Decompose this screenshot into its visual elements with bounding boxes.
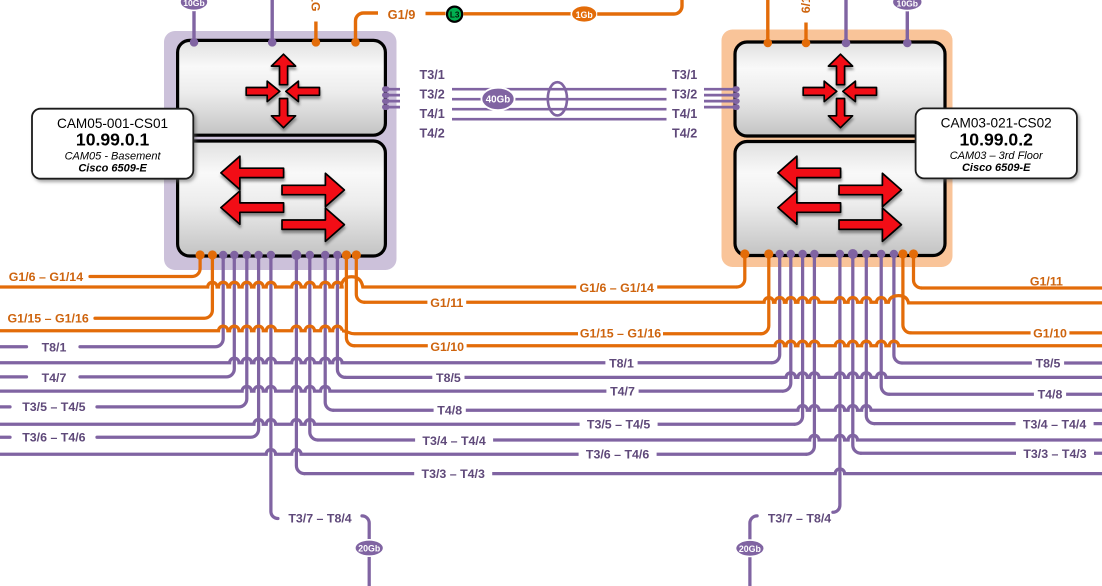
wire drop T4/8 left switch — [325, 255, 333, 410]
wire 40Gb bundle line 4 — [387, 107, 737, 119]
wire run T8/1 right switch — [0, 358, 772, 363]
svg-text:T4/1: T4/1 — [672, 107, 697, 121]
svg-text:G1/15 – G1/16: G1/15 – G1/16 — [7, 312, 88, 326]
port connection dots — [196, 250, 205, 259]
wire T4/7 left switch — [80, 255, 234, 377]
label G1/11 (centre) — [427, 296, 466, 309]
label T3/3 - T4/3 (centre) — [414, 467, 492, 480]
svg-text:20Gb: 20Gb — [739, 544, 762, 554]
switch side connector stubs — [382, 86, 389, 92]
svg-text:T4/1: T4/1 — [420, 107, 445, 121]
right switch switching-arrows icon — [778, 156, 902, 241]
wire G1/6 (orange, right switch) — [804, 23, 807, 44]
left switch switching-arrows icon — [221, 156, 345, 241]
svg-text:G1/11: G1/11 — [430, 296, 463, 310]
svg-text:T3/5 – T4/5: T3/5 – T4/5 — [587, 418, 650, 432]
svg-text:T3/4 – T4/4: T3/4 – T4/4 — [422, 434, 485, 448]
svg-text:T3/6 – T4/6: T3/6 – T4/6 — [586, 448, 649, 462]
wire drop G1/10 right switch — [903, 254, 911, 333]
name plate left — [32, 109, 193, 179]
wire 20Gb downlink left — [362, 516, 369, 586]
svg-text:T3/1: T3/1 — [420, 68, 445, 82]
label G1/6 - G1/14 (centre) — [576, 281, 657, 294]
label T3/5 - T4/5 (centre) — [580, 418, 658, 431]
label G1/15 - G1/16 (centre) — [578, 327, 663, 340]
svg-text:T8/5: T8/5 — [1036, 357, 1061, 371]
svg-text:T3/2: T3/2 — [420, 87, 445, 101]
svg-text:T4/7: T4/7 — [42, 371, 67, 385]
wire run G1/10 left switch — [354, 341, 1102, 346]
svg-text:T3/5 – T4/5: T3/5 – T4/5 — [22, 400, 85, 414]
20Gb speed oval left — [355, 540, 384, 556]
label T4/8 (centre) — [434, 404, 466, 417]
label T4/8 (far right) — [1034, 388, 1066, 401]
svg-text:T4/7: T4/7 — [610, 384, 635, 398]
wire uplink (left purple, to top edge) — [271, 0, 274, 42]
wire T3/7-T8/4 left switch (hooked end) — [271, 255, 278, 519]
svg-text:Cisco 6509-E: Cisco 6509-E — [962, 162, 1031, 174]
wire drop G1/10 left switch — [346, 255, 354, 346]
svg-text:10Gb: 10Gb — [897, 0, 919, 8]
svg-text:CAM03 – 3rd Floor: CAM03 – 3rd Floor — [950, 150, 1044, 162]
svg-text:G1/11: G1/11 — [1030, 274, 1063, 288]
svg-text:10.99.0.2: 10.99.0.2 — [960, 129, 1034, 149]
svg-text:CAM05 - Basement: CAM05 - Basement — [65, 150, 162, 162]
10Gb speed oval (right, clipped) — [892, 0, 922, 11]
svg-text:L3: L3 — [450, 10, 460, 19]
svg-text:1G: 1G — [309, 0, 323, 12]
svg-text:T3/4 – T4/4: T3/4 – T4/4 — [1023, 417, 1086, 431]
wire run T3/6-T4/6 right switch — [0, 450, 806, 455]
svg-text:10.99.0.1: 10.99.0.1 — [76, 130, 150, 150]
label T3/3 - T4/3 (far right) — [1016, 447, 1094, 460]
svg-text:G1/6 – G1/14: G1/6 – G1/14 — [9, 270, 84, 284]
svg-text:T3/6 – T4/6: T3/6 – T4/6 — [22, 431, 85, 445]
wire run T3/5-T4/5 right switch — [0, 420, 795, 425]
svg-text:10Gb: 10Gb — [183, 0, 205, 8]
label T4/7 (centre) — [606, 385, 638, 398]
svg-text:40Gb: 40Gb — [486, 95, 511, 106]
wire run G1/11 left switch — [364, 296, 1102, 303]
svg-text:T8/5: T8/5 — [436, 371, 461, 385]
wire 40Gb bundle line T3/1 — [387, 88, 737, 91]
wire uplink 10Gb (left, to top edge) — [192, 4, 195, 42]
wire 40Gb bundle line 2 — [387, 95, 737, 99]
svg-text:G1/15 – G1/16: G1/15 – G1/16 — [580, 327, 661, 341]
wire drop T3/3-T4/3 left switch — [296, 255, 304, 474]
wire run T3/4-T4/4 left switch — [318, 435, 1102, 440]
wire drop G1/15-G1/16 right switch — [761, 254, 769, 334]
name plate right — [916, 108, 1077, 178]
wire G1/3 (orange, to top edge) — [314, 22, 317, 43]
svg-text:G1/10: G1/10 — [430, 340, 464, 354]
wire T3/5-T4/5 left switch stub — [0, 405, 10, 408]
wire run T3/3-T4/3 left switch — [304, 469, 1102, 474]
svg-text:G1/6 – G1/14: G1/6 – G1/14 — [579, 281, 654, 295]
label T8/5 (far right) — [1032, 357, 1064, 370]
wire drop G1/11 left switch — [356, 255, 364, 302]
left switch supervisor box (top) — [178, 40, 386, 135]
svg-text:T3/3 – T4/3: T3/3 – T4/3 — [1023, 447, 1086, 461]
wire drop G1/11 right switch — [914, 254, 922, 288]
wire T3/7-T8/4 right switch (hooked end) — [833, 254, 840, 512]
wire drop T3/4-T4/4 left switch — [310, 255, 318, 440]
svg-text:Cisco 6509-E: Cisco 6509-E — [78, 162, 147, 174]
svg-text:T3/1: T3/1 — [672, 68, 697, 82]
label G1/10 (centre) — [428, 340, 467, 353]
svg-text:T4/8: T4/8 — [437, 404, 462, 418]
wire T8/1 left switch — [80, 255, 223, 347]
wire run G1/6-G1/14 right switch — [0, 277, 737, 287]
wire drop G1/6-G1/14 right switch — [737, 254, 745, 287]
svg-text:T3/7 – T8/4: T3/7 – T8/4 — [768, 512, 831, 526]
wire run T3/4-T4/4 right switch edge — [874, 422, 1102, 425]
wire drop T8/5 right switch — [894, 254, 902, 363]
svg-text:T8/1: T8/1 — [609, 357, 634, 371]
40Gb speed oval — [481, 88, 514, 110]
right switch multilayer-switch icon (4-way arrows) — [803, 54, 876, 128]
wire purple uplink right switch — [844, 0, 847, 43]
svg-text:T3/3 – T4/3: T3/3 – T4/3 — [422, 467, 485, 481]
left switch outer band — [164, 31, 397, 270]
wire G1/6-G1/14 left switch — [90, 255, 200, 277]
label T8/1 (centre) — [605, 357, 637, 370]
wire 20Gb downlink right — [750, 516, 757, 586]
svg-text:T4/8: T4/8 — [1038, 388, 1063, 402]
label backgrounds 40Gb link — [400, 66, 452, 141]
wire run G1/10 right switch — [911, 331, 1102, 334]
svg-text:6/1G: 6/1G — [799, 0, 813, 13]
wire drop T3/4-T4/4 right switch — [866, 254, 874, 424]
label T3/4 - T4/4 (centre) — [415, 434, 493, 447]
wire drop T4/8 right switch — [881, 254, 889, 394]
wire run T4/8 right switch edge — [889, 393, 1102, 396]
label T3/6 - T4/6 (centre) — [579, 448, 657, 461]
L3 routing badge — [447, 7, 462, 22]
wire drop T8/5 left switch — [337, 255, 345, 377]
svg-text:T4/2: T4/2 — [672, 127, 697, 141]
svg-text:1Gb: 1Gb — [576, 10, 594, 20]
wire orange uplink right switch (to top edge) — [766, 0, 769, 43]
svg-text:G1/9: G1/9 — [388, 7, 416, 22]
label T8/5 (centre) — [432, 371, 464, 384]
wire 10Gb uplink right switch — [906, 4, 909, 43]
wire 40Gb bundle line 3 — [387, 101, 737, 109]
wire run T8/5 left switch — [345, 373, 1102, 378]
left switch switch-fabric box (bottom) — [178, 141, 386, 256]
wire drop T4/7 right switch — [783, 254, 791, 391]
label G1/10 (far right) — [1031, 327, 1070, 340]
right switch outer band — [722, 30, 953, 268]
wire drop T3/3-T4/3 right switch — [853, 254, 861, 453]
wire T3/5-T4/5 left switch — [97, 255, 247, 407]
svg-text:T8/1: T8/1 — [42, 341, 67, 355]
10Gb speed oval (left, clipped) — [180, 0, 208, 10]
svg-text:G1/10: G1/10 — [1033, 327, 1067, 341]
svg-text:T3/7 – T8/4: T3/7 – T8/4 — [288, 511, 351, 525]
wire run T4/7 right switch — [0, 386, 783, 391]
wire G1/9 link with L3 and 1Gb — [356, 13, 379, 42]
label T3/4 - T4/4 (far right) — [1016, 418, 1094, 431]
wire G1/15-G1/16 left switch — [95, 255, 212, 318]
wire run G1/11 right switch — [922, 286, 1102, 289]
right switch switch-fabric box (bottom) — [735, 142, 945, 256]
svg-text:T3/2: T3/2 — [672, 87, 697, 101]
wire run T4/8 left switch — [333, 406, 1102, 411]
20Gb speed oval right — [736, 540, 765, 556]
1Gb speed oval — [571, 6, 597, 23]
wire run T3/3-T4/3 right switch edge — [861, 452, 1102, 455]
wire drop T3/6-T4/6 right switch — [806, 254, 814, 454]
svg-text:20Gb: 20Gb — [358, 544, 381, 554]
bundle grouping ellipse — [548, 82, 567, 115]
wire run G1/15-G1/16 right switch — [0, 326, 761, 334]
wire T4/7 left switch stub — [0, 375, 27, 378]
right switch supervisor box (top) — [735, 42, 945, 136]
wire drop T8/1 right switch — [772, 254, 780, 363]
left switch multilayer-switch icon (4-way arrows) — [246, 54, 319, 128]
svg-text:T4/2: T4/2 — [420, 127, 445, 141]
wire T3/6-T4/6 left switch stub — [0, 436, 10, 439]
wire drop T3/5-T4/5 right switch — [795, 254, 803, 424]
wire T8/1 left switch stub — [0, 345, 27, 348]
wire T3/6-T4/6 left switch — [97, 255, 259, 437]
wire run T8/5 right switch edge — [902, 361, 1102, 364]
